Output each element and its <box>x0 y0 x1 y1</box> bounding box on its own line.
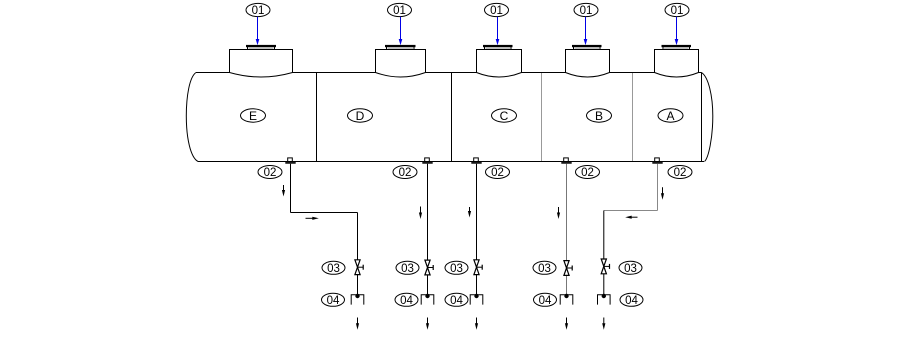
drain funnel A <box>598 294 611 305</box>
pipe E drop from outlet <box>290 164 292 213</box>
valve V-C <box>474 260 482 275</box>
svg-text:04: 04 <box>539 295 552 307</box>
valve V-D <box>425 260 433 275</box>
bottom outlet E stub <box>285 158 295 164</box>
nozzle N-A flange <box>662 45 692 50</box>
label 04 drain B <box>534 293 557 307</box>
label 03 valve C <box>445 261 468 275</box>
bottom outlet C stub <box>471 158 481 164</box>
label 04 drain E <box>322 293 345 307</box>
svg-text:02: 02 <box>399 167 412 179</box>
svg-text:03: 03 <box>327 263 340 275</box>
label 02 outlet C <box>486 166 510 180</box>
pipe A drop from outlet <box>657 164 659 211</box>
nozzle N-E neck <box>230 50 293 78</box>
pipe A horizontal run <box>604 210 658 212</box>
label 01 nozzle C <box>485 3 509 17</box>
label 02 outlet E <box>258 166 282 180</box>
nozzle N-C neck <box>477 50 522 78</box>
svg-text:04: 04 <box>625 295 638 307</box>
svg-text:02: 02 <box>674 167 687 179</box>
pipe E horizontal run <box>291 212 358 214</box>
leader arrow 01-B <box>584 17 588 45</box>
flow arrow D down <box>419 207 422 220</box>
svg-text:03: 03 <box>624 263 637 275</box>
pipe B drop <box>566 164 568 295</box>
svg-text:04: 04 <box>450 295 463 307</box>
svg-text:02: 02 <box>491 167 504 179</box>
vessel shell bottom line <box>198 161 704 163</box>
svg-text:03: 03 <box>538 263 551 275</box>
flow arrow C down <box>468 207 471 218</box>
svg-text:E: E <box>249 109 257 123</box>
svg-text:01: 01 <box>580 5 593 17</box>
compartment divider D/C <box>451 73 453 161</box>
discharge arrow B <box>565 318 568 330</box>
label 01 nozzle D <box>388 3 412 17</box>
svg-text:01: 01 <box>393 5 406 17</box>
vessel shell top line <box>196 72 702 74</box>
svg-text:B: B <box>595 109 603 123</box>
label 04 drain A <box>620 293 643 307</box>
leader arrow 01-C <box>496 17 500 45</box>
flow arrow B down <box>557 207 560 219</box>
compartment tag E <box>241 109 266 123</box>
svg-text:C: C <box>500 109 509 123</box>
flow arrow E down <box>282 185 285 197</box>
label 04 drain C <box>445 293 468 307</box>
discharge arrow D <box>426 318 429 330</box>
leader arrow 01-D <box>399 17 403 45</box>
svg-text:02: 02 <box>581 167 594 179</box>
label 01 nozzle E <box>246 3 270 17</box>
label 03 valve A <box>619 261 642 275</box>
compartment divider E/D <box>316 73 318 161</box>
compartment tag D <box>348 109 373 123</box>
label 04 drain D <box>395 293 418 307</box>
label 01 nozzle B <box>574 3 598 17</box>
pipe C drop <box>476 164 478 295</box>
pipe D drop <box>427 164 429 295</box>
drain funnel C <box>470 294 483 305</box>
svg-text:01: 01 <box>490 5 503 17</box>
leader arrow 01-A <box>675 17 679 45</box>
label 02 outlet B <box>576 166 600 180</box>
discharge arrow A <box>602 318 605 330</box>
drain funnel E <box>351 294 364 305</box>
valve V-A <box>601 259 609 274</box>
flow arrow A left <box>625 216 637 219</box>
leader arrow 01-E <box>256 17 260 45</box>
bottom outlet A stub <box>652 158 662 164</box>
label 02 outlet D <box>393 166 417 180</box>
svg-text:A: A <box>666 109 674 123</box>
vessel left head <box>186 73 198 162</box>
bottom outlet D stub <box>422 158 432 164</box>
label 02 outlet A <box>668 166 692 180</box>
nozzle N-D flange <box>385 45 416 50</box>
svg-text:01: 01 <box>671 5 684 17</box>
compartment tag C <box>492 109 517 123</box>
svg-text:D: D <box>356 109 365 123</box>
label 03 valve E <box>322 261 345 275</box>
vessel right head <box>702 73 713 162</box>
vessel right head seam <box>701 73 703 162</box>
label 03 valve B <box>533 261 556 275</box>
compartment tag A <box>658 109 683 123</box>
svg-text:04: 04 <box>327 295 340 307</box>
nozzle N-B neck <box>566 50 610 78</box>
svg-text:03: 03 <box>450 263 463 275</box>
nozzle N-B flange <box>572 45 602 50</box>
valve V-B <box>564 261 572 276</box>
bottom outlet B stub <box>561 158 571 164</box>
flow arrow E right <box>306 217 319 220</box>
label 01 nozzle A <box>665 3 689 17</box>
valve V-E <box>355 260 363 275</box>
svg-text:02: 02 <box>264 167 277 179</box>
drain funnel D <box>421 294 434 305</box>
label 03 valve D <box>396 261 419 275</box>
pipe A drop to valve and funnel <box>603 211 605 295</box>
svg-text:03: 03 <box>401 263 414 275</box>
nozzle N-A neck <box>655 50 699 78</box>
nozzle N-C flange <box>483 45 513 50</box>
compartment divider C/B <box>541 73 543 161</box>
compartment tag B <box>587 109 612 123</box>
svg-text:01: 01 <box>252 5 265 17</box>
discharge arrow C <box>475 318 478 330</box>
compartment divider B/A <box>632 73 634 161</box>
pipe E drop to valve and funnel <box>357 213 359 295</box>
svg-text:04: 04 <box>400 295 413 307</box>
discharge arrow E <box>356 318 359 330</box>
flow arrow A down <box>661 187 664 200</box>
nozzle N-D neck <box>376 50 426 78</box>
nozzle N-E flange <box>246 45 276 50</box>
drain funnel B <box>560 294 573 305</box>
